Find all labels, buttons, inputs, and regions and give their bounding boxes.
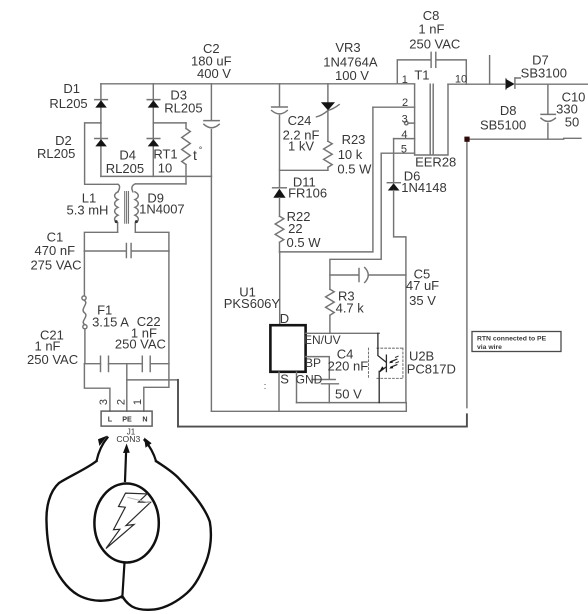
wire PE to secondary RTN [127,379,178,381]
transformer T1 primary pin stubs [373,107,415,153]
svg-text:D1: D1 [63,81,80,96]
svg-text:4.7 k: 4.7 k [336,301,365,316]
capacitor C22 [142,356,150,371]
label EER28 [415,155,456,170]
capacitor C24 [272,84,288,188]
svg-text:3: 3 [98,399,110,405]
label pin GND [296,373,323,387]
fuse F1 [82,296,87,364]
svg-text:BP: BP [305,356,321,370]
label D1 [49,81,87,111]
svg-text:EN/UV: EN/UV [304,333,341,347]
label D2 [37,133,75,161]
resistor R3 [326,289,335,333]
wire U1 bottom pin to gnd rail [296,372,298,402]
label R23 [337,132,372,177]
svg-text:RL205: RL205 [37,146,75,161]
wire pin5 return [330,153,381,289]
wire bridge bottom rail to C2 [101,175,211,177]
diode D1 [95,84,108,123]
wire X-cap rail [84,363,168,365]
wire gnd rail A [297,403,407,412]
wire AC-L from D1/D2 junction to choke [85,123,118,184]
label t-degree [193,145,203,163]
svg-text:D: D [280,311,289,326]
label C24 [283,113,320,154]
svg-text:SB3100: SB3100 [521,66,567,81]
label U2B [407,349,456,377]
lightning bolt [106,493,151,548]
diode D7 [506,78,520,89]
label C4 [328,347,369,402]
wire U1 drain [279,252,281,325]
label connector N [142,415,147,424]
label C21 [27,328,78,368]
svg-text:2: 2 [402,97,408,109]
label U1 [224,285,281,312]
svg-text:400 V: 400 V [197,66,231,81]
label F1 [92,303,129,330]
label J1 [116,428,140,445]
svg-text:10: 10 [158,161,172,176]
wire RTN right vertical [466,139,468,408]
svg-text:10 k: 10 k [338,147,363,162]
svg-text:1: 1 [402,74,408,86]
label connector pin digit 1 [132,399,144,405]
resistor R23 [324,141,333,170]
svg-text:1 kV: 1 kV [288,139,314,154]
hand-drawn arrow to L pin [97,434,108,461]
capacitor C8 [397,52,466,84]
note box RTN connected to PE [472,332,561,352]
svg-text:via wire: via wire [477,344,502,351]
svg-text:3: 3 [402,114,408,126]
svg-text:t: t [193,147,197,163]
wire C1 left down to fuse [83,251,85,296]
label connector PE [122,415,132,424]
label C10 [556,90,585,130]
label pin10 [455,74,467,86]
wire L branch down to connector pin3 [84,364,110,411]
label connector L [108,415,113,424]
wire RTN bottom long run dark [178,414,467,426]
wire secondary bottom rail [467,137,581,140]
svg-text:100 V: 100 V [335,68,369,83]
wire primary RTN bottom rail [211,410,406,412]
svg-text:RT1: RT1 [153,147,177,162]
diode D11 [273,188,287,217]
label D9 [139,191,185,217]
label pin D [280,311,289,326]
svg-text:50: 50 [565,115,579,130]
svg-text:S: S [280,372,289,387]
svg-text:5.3 mH: 5.3 mH [67,203,109,218]
hand-drawn arrow to N pin [144,436,156,461]
svg-text:1N4007: 1N4007 [139,202,185,217]
svg-text:C24: C24 [288,113,312,128]
wire pin4 to D6 [393,139,395,183]
label pin2 [402,97,408,109]
svg-text:RL205: RL205 [164,101,202,116]
wire BP stub [306,357,330,380]
label pin BP [305,356,321,370]
svg-text:250 VAC: 250 VAC [27,352,78,367]
label T1 [414,68,429,83]
hand-drawn arrow to PE pin [123,444,130,482]
capacitor C5 [330,268,406,283]
svg-text:RL205: RL205 [106,161,144,176]
label pin EN/UV [304,333,341,347]
resistor R22 [275,216,284,252]
note text RTN connected to PE via wire [477,336,547,352]
wire N branch down to connector pin1 [144,251,169,411]
wire PE branch down to connector pin2 [126,364,128,411]
svg-text:R23: R23 [342,132,366,147]
wire clamp to drain rail [280,107,373,252]
label connector pin digit 2 [115,399,127,405]
label C5 [406,267,439,309]
svg-text:PE: PE [122,415,132,424]
label D3 [164,88,202,116]
capacitor C2 [204,84,219,177]
svg-text:1 nF: 1 nF [418,22,444,37]
transformer T1 winding box [415,84,448,155]
wire primary RTN vertical [210,176,212,411]
label connector pin digit 3 [98,399,110,405]
label RT1 [153,147,177,176]
diode D4 [147,123,160,176]
zener VR3 [317,84,340,142]
diode D2 [95,123,108,176]
svg-text:47 uF: 47 uF [406,278,439,293]
svg-text:22: 22 [288,221,302,236]
wire PE-RTN vertical dark [177,380,179,427]
label R22 [287,209,322,250]
svg-text:RTN connected to PE: RTN connected to PE [477,336,547,343]
wire RT1 bottom to choke right winding [132,184,186,192]
label C1 [30,230,81,273]
hand-drawn ellipse [94,484,158,563]
svg-text:L: L [108,415,113,424]
svg-text:EER28: EER28 [415,155,456,170]
junction RTN node [464,137,469,142]
capacitor C21 [101,356,109,371]
svg-text:2: 2 [115,399,127,405]
diode D3 [147,84,160,123]
capacitor C4 [312,380,338,403]
artifact colon [264,381,267,391]
label pin1 [402,74,408,86]
hand-drawn left lobe [46,461,121,601]
svg-text:250 VAC: 250 VAC [409,37,460,52]
thermistor RT1 [182,123,191,184]
wire AC-N from D3/D4 junction to RT1 top [153,122,186,124]
wire top HV rail [101,83,415,85]
svg-text:470 nF: 470 nF [35,243,76,258]
svg-text:1: 1 [132,399,144,405]
wire choke bottom left segment [84,232,117,251]
label C2 [191,41,232,81]
wire U1 bottom pin S [278,372,280,411]
capacitor C10 [541,84,555,139]
svg-text:250 VAC: 250 VAC [115,337,166,352]
svg-text:PC817D: PC817D [407,362,456,377]
hand-drawn right lobe [123,461,211,610]
diode D6 [387,183,406,403]
svg-text:3.15 A: 3.15 A [92,315,129,330]
svg-text:0.5 W: 0.5 W [287,235,322,250]
label pin5 [401,144,407,156]
label D6 [401,169,447,196]
label VR3 [323,40,378,83]
label pin S [280,372,289,387]
connector J1 box [101,411,152,426]
svg-text:0.5 W: 0.5 W [337,162,372,177]
svg-text:RL205: RL205 [49,96,87,111]
label D8 [480,103,526,133]
svg-text:275 VAC: 275 VAC [30,258,81,273]
svg-text:CON3: CON3 [116,434,140,444]
wire EN/UV stub to opto collector [306,332,379,334]
wire secondary top rail [448,83,588,85]
svg-text:SB5100: SB5100 [480,118,526,133]
svg-text:10: 10 [455,74,467,86]
label D4 [106,148,144,177]
inductor L1 common-mode choke [115,184,139,232]
svg-text:D8: D8 [500,103,517,118]
svg-text:220 nF: 220 nF [328,359,369,374]
optocoupler U2B dashed box [369,348,403,378]
label pin3 [402,114,408,126]
svg-text:N: N [142,415,147,424]
label D7 [521,53,567,81]
wire R23 bottom to C24 column [280,169,328,171]
svg-text:°: ° [199,145,203,155]
svg-text:T1: T1 [414,68,429,83]
capacitor C1 [84,244,168,258]
label pin4 [401,129,407,141]
svg-text:50 V: 50 V [335,387,362,402]
svg-text:PKS606Y: PKS606Y [224,296,281,311]
svg-text:1N4148: 1N4148 [401,180,447,195]
hand-drawn stem ellipse to cusp [122,563,124,598]
label R3 [336,289,365,316]
stub above output rail [489,56,491,84]
optocoupler U2B phototransistor [378,333,399,402]
wire choke bottom right segment [135,232,169,251]
svg-text:4: 4 [401,129,407,141]
svg-text:35 V: 35 V [409,293,436,308]
svg-text::: : [264,381,267,391]
svg-text:VR3: VR3 [335,40,360,55]
IC U1 box [270,325,305,372]
label L1 [67,191,109,218]
label C8 [409,8,460,52]
label C22 [115,314,166,352]
svg-text:GND: GND [296,373,323,387]
svg-text:5: 5 [401,144,407,156]
svg-text:FR106: FR106 [288,186,327,201]
label D11 [288,175,327,201]
